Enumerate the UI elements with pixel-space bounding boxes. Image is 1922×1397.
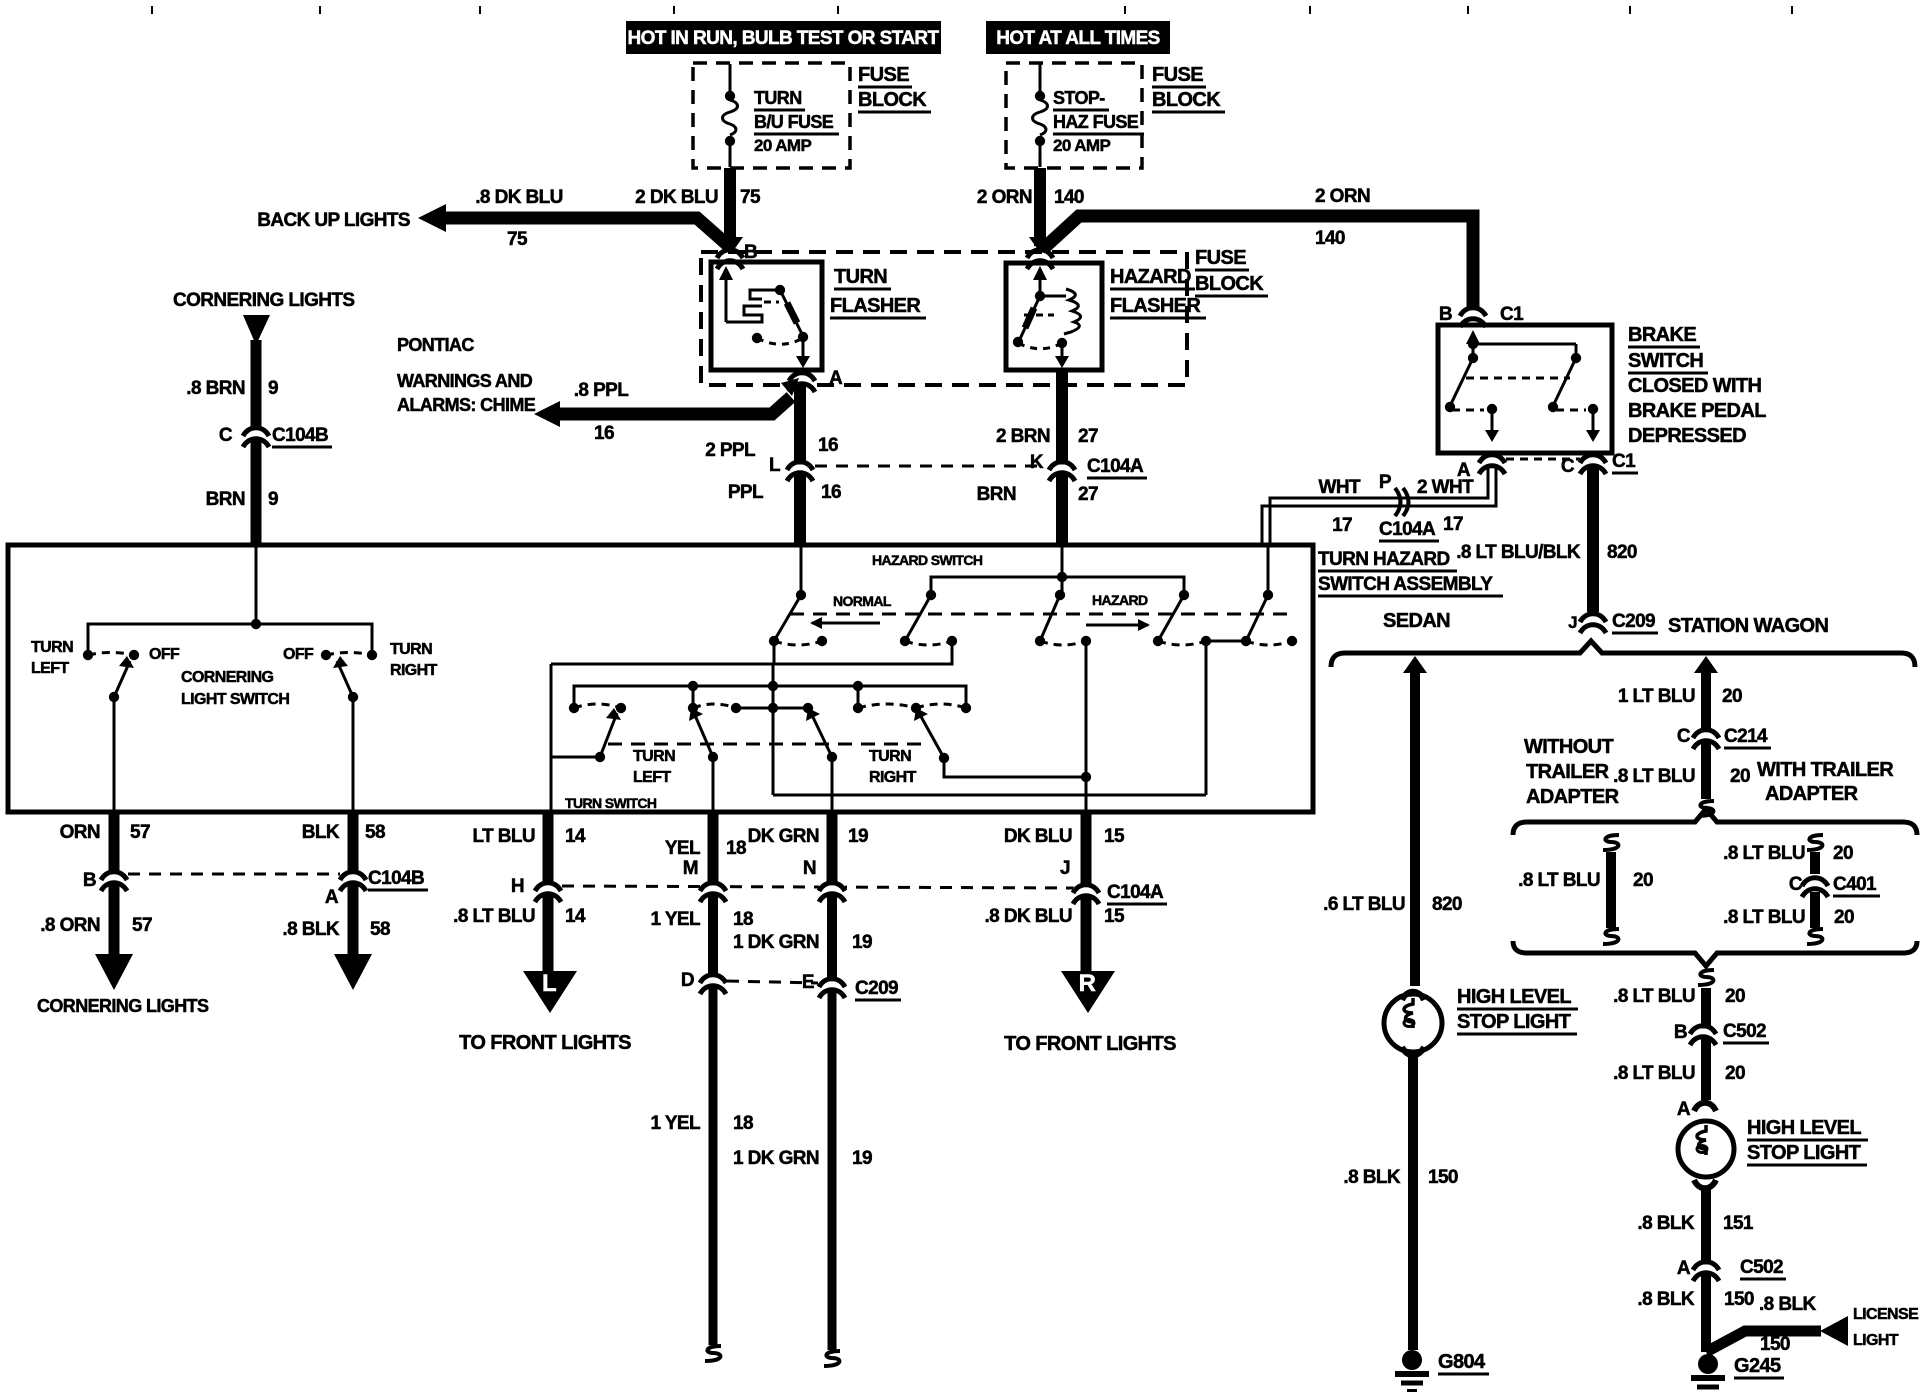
svg-text:N: N — [803, 858, 816, 879]
svg-text:20: 20 — [1725, 986, 1745, 1007]
svg-text:LEFT: LEFT — [633, 769, 671, 786]
svg-text:OFF: OFF — [283, 646, 314, 663]
svg-text:20: 20 — [1633, 870, 1653, 891]
svg-text:TRAILER: TRAILER — [1526, 761, 1610, 783]
svg-text:75: 75 — [740, 187, 761, 208]
svg-text:B: B — [1674, 1022, 1687, 1043]
svg-text:57: 57 — [132, 915, 152, 936]
svg-text:FUSE: FUSE — [858, 64, 909, 86]
svg-text:820: 820 — [1607, 542, 1637, 563]
svg-text:DK GRN: DK GRN — [748, 826, 819, 847]
svg-text:14: 14 — [565, 826, 586, 847]
svg-text:D: D — [681, 970, 694, 991]
svg-text:18: 18 — [733, 1113, 753, 1134]
svg-text:16: 16 — [594, 423, 614, 444]
svg-text:M: M — [683, 858, 698, 879]
svg-text:SEDAN: SEDAN — [1383, 610, 1450, 632]
svg-text:CLOSED WITH: CLOSED WITH — [1628, 375, 1762, 397]
svg-text:18: 18 — [726, 838, 746, 859]
svg-text:2 BRN: 2 BRN — [996, 426, 1050, 447]
svg-text:TURN: TURN — [31, 639, 73, 656]
svg-text:.8 BLK: .8 BLK — [1637, 1289, 1694, 1310]
svg-text:PPL: PPL — [728, 482, 764, 503]
svg-text:C502: C502 — [1740, 1257, 1783, 1278]
svg-text:WARNINGS AND: WARNINGS AND — [397, 371, 533, 391]
svg-text:NORMAL: NORMAL — [833, 593, 892, 609]
svg-text:.8 LT BLU: .8 LT BLU — [1723, 907, 1805, 928]
svg-text:1 DK GRN: 1 DK GRN — [733, 932, 819, 953]
svg-text:C214: C214 — [1724, 726, 1768, 747]
svg-text:.8 BLK: .8 BLK — [1637, 1213, 1694, 1234]
svg-text:B: B — [83, 870, 96, 891]
svg-text:140: 140 — [1315, 228, 1345, 249]
svg-text:C104A: C104A — [1107, 882, 1164, 903]
svg-text:FUSE: FUSE — [1195, 247, 1246, 269]
svg-text:20: 20 — [1722, 686, 1742, 707]
svg-text:TURN SWITCH: TURN SWITCH — [565, 795, 657, 811]
svg-text:9: 9 — [268, 378, 278, 399]
svg-text:.8 LT BLU: .8 LT BLU — [1613, 986, 1695, 1007]
svg-text:LICENSE: LICENSE — [1853, 1306, 1919, 1323]
svg-text:LIGHT: LIGHT — [1853, 1332, 1899, 1349]
svg-text:A: A — [1677, 1258, 1691, 1279]
svg-text:17: 17 — [1332, 515, 1352, 536]
svg-text:C401: C401 — [1833, 874, 1877, 895]
svg-text:C: C — [1789, 874, 1803, 895]
svg-text:1 YEL: 1 YEL — [651, 909, 701, 930]
svg-text:20: 20 — [1833, 843, 1853, 864]
svg-text:.8 PPL: .8 PPL — [574, 380, 629, 401]
svg-text:.8 ORN: .8 ORN — [40, 915, 100, 936]
svg-text:STOP-: STOP- — [1053, 88, 1105, 108]
svg-text:TURN: TURN — [834, 266, 887, 288]
svg-text:FLASHER: FLASHER — [1110, 295, 1201, 317]
svg-text:1 LT BLU: 1 LT BLU — [1618, 686, 1695, 707]
svg-text:CORNERING: CORNERING — [181, 669, 274, 686]
svg-text:27: 27 — [1078, 426, 1098, 447]
svg-text:2 PPL: 2 PPL — [705, 440, 756, 461]
svg-text:18: 18 — [733, 909, 753, 930]
svg-text:BRAKE: BRAKE — [1628, 324, 1696, 346]
svg-text:L: L — [542, 970, 556, 997]
svg-text:19: 19 — [852, 932, 872, 953]
svg-text:HAZARD: HAZARD — [1110, 266, 1191, 288]
svg-text:150: 150 — [1428, 1167, 1458, 1188]
svg-text:J: J — [1060, 858, 1070, 879]
svg-text:STATION WAGON: STATION WAGON — [1668, 615, 1828, 637]
svg-text:L: L — [769, 455, 781, 476]
svg-text:TURN: TURN — [390, 641, 432, 658]
svg-text:151: 151 — [1723, 1213, 1754, 1234]
svg-text:A: A — [1677, 1099, 1691, 1120]
svg-text:14: 14 — [565, 906, 586, 927]
svg-text:ADAPTER: ADAPTER — [1765, 783, 1859, 805]
svg-text:BLOCK: BLOCK — [858, 89, 927, 111]
svg-text:A: A — [325, 887, 339, 908]
svg-text:20: 20 — [1834, 907, 1854, 928]
svg-text:LEFT: LEFT — [31, 660, 69, 677]
svg-text:C104B: C104B — [368, 868, 424, 889]
svg-text:SWITCH ASSEMBLY: SWITCH ASSEMBLY — [1318, 574, 1493, 595]
svg-text:C1: C1 — [1612, 451, 1636, 472]
svg-text:FUSE: FUSE — [1152, 64, 1203, 86]
svg-text:C: C — [219, 425, 233, 446]
svg-text:TURN: TURN — [754, 88, 802, 108]
svg-text:.8 LT BLU: .8 LT BLU — [1613, 766, 1695, 787]
svg-text:HIGH LEVEL: HIGH LEVEL — [1457, 986, 1571, 1008]
svg-text:2 ORN: 2 ORN — [1315, 186, 1370, 207]
svg-text:58: 58 — [370, 919, 390, 940]
svg-text:TURN HAZARD: TURN HAZARD — [1318, 549, 1450, 570]
svg-text:C1: C1 — [1500, 304, 1524, 325]
svg-text:2 WHT: 2 WHT — [1417, 477, 1474, 498]
svg-text:BRAKE PEDAL: BRAKE PEDAL — [1628, 400, 1766, 422]
svg-text:.8 BRN: .8 BRN — [186, 378, 245, 399]
svg-text:27: 27 — [1078, 484, 1098, 505]
svg-text:.8 LT BLU: .8 LT BLU — [1723, 843, 1805, 864]
svg-text:TO FRONT LIGHTS: TO FRONT LIGHTS — [459, 1032, 631, 1054]
svg-text:16: 16 — [818, 435, 838, 456]
svg-text:DEPRESSED: DEPRESSED — [1628, 425, 1746, 447]
svg-text:A: A — [829, 368, 843, 389]
svg-text:BRN: BRN — [977, 484, 1016, 505]
svg-text:9: 9 — [268, 489, 278, 510]
svg-text:OFF: OFF — [149, 646, 180, 663]
svg-text:.6 LT BLU: .6 LT BLU — [1323, 894, 1405, 915]
svg-text:HAZARD: HAZARD — [1092, 592, 1148, 608]
svg-text:CORNERING LIGHTS: CORNERING LIGHTS — [37, 996, 209, 1016]
svg-text:HAZARD SWITCH: HAZARD SWITCH — [872, 552, 983, 568]
svg-text:C: C — [1677, 726, 1691, 747]
svg-text:ORN: ORN — [60, 822, 100, 843]
svg-text:150: 150 — [1760, 1334, 1790, 1355]
svg-text:19: 19 — [852, 1148, 872, 1169]
svg-text:15: 15 — [1104, 906, 1125, 927]
svg-text:HOT IN RUN, BULB TEST OR START: HOT IN RUN, BULB TEST OR START — [628, 28, 940, 49]
svg-text:J: J — [1568, 613, 1577, 632]
svg-text:WITHOUT: WITHOUT — [1524, 736, 1613, 758]
svg-text:19: 19 — [848, 826, 868, 847]
svg-text:C502: C502 — [1723, 1021, 1766, 1042]
svg-text:G804: G804 — [1438, 1351, 1486, 1373]
svg-text:820: 820 — [1432, 894, 1462, 915]
svg-text:B: B — [1439, 304, 1452, 325]
svg-text:DK BLU: DK BLU — [1004, 826, 1072, 847]
svg-text:HOT AT ALL TIMES: HOT AT ALL TIMES — [996, 28, 1160, 49]
svg-text:.8 LT BLU: .8 LT BLU — [453, 906, 535, 927]
svg-text:K: K — [1030, 452, 1044, 473]
svg-text:.8 LT BLU: .8 LT BLU — [1613, 1063, 1695, 1084]
svg-text:2 DK BLU: 2 DK BLU — [635, 187, 718, 208]
svg-text:P: P — [1379, 472, 1392, 493]
svg-text:.8 BLK: .8 BLK — [1343, 1167, 1400, 1188]
svg-text:WITH TRAILER: WITH TRAILER — [1757, 759, 1894, 781]
svg-text:BLK: BLK — [302, 822, 340, 843]
svg-text:.8 LT BLU/BLK: .8 LT BLU/BLK — [1456, 542, 1581, 563]
svg-text:57: 57 — [130, 822, 150, 843]
svg-text:PONTIAC: PONTIAC — [397, 335, 474, 355]
svg-text:2 ORN: 2 ORN — [977, 187, 1032, 208]
svg-text:C209: C209 — [1612, 611, 1655, 632]
svg-text:CORNERING LIGHTS: CORNERING LIGHTS — [173, 290, 354, 311]
svg-text:16: 16 — [821, 482, 841, 503]
svg-text:.8 BLK: .8 BLK — [1759, 1294, 1816, 1315]
svg-text:H: H — [511, 876, 524, 897]
svg-text:RIGHT: RIGHT — [869, 769, 917, 786]
svg-text:TURN: TURN — [869, 748, 911, 765]
svg-text:BACK UP LIGHTS: BACK UP LIGHTS — [257, 210, 410, 231]
svg-text:BLOCK: BLOCK — [1152, 89, 1221, 111]
svg-text:WHT: WHT — [1319, 477, 1361, 498]
svg-text:C: C — [1561, 456, 1575, 477]
svg-text:C209: C209 — [855, 978, 898, 999]
svg-text:1 YEL: 1 YEL — [651, 1113, 701, 1134]
svg-text:HAZ FUSE: HAZ FUSE — [1053, 112, 1139, 132]
svg-text:YEL: YEL — [665, 838, 701, 859]
svg-text:ADAPTER: ADAPTER — [1526, 786, 1620, 808]
svg-text:75: 75 — [507, 229, 528, 250]
svg-text:FLASHER: FLASHER — [830, 295, 921, 317]
svg-text:STOP LIGHT: STOP LIGHT — [1747, 1142, 1861, 1164]
svg-text:.8 BLK: .8 BLK — [282, 919, 339, 940]
svg-text:TO FRONT LIGHTS: TO FRONT LIGHTS — [1004, 1033, 1176, 1055]
svg-text:15: 15 — [1104, 826, 1125, 847]
svg-text:20 AMP: 20 AMP — [754, 136, 811, 155]
svg-text:LT BLU: LT BLU — [472, 826, 535, 847]
svg-text:B/U FUSE: B/U FUSE — [754, 112, 834, 132]
svg-text:BLOCK: BLOCK — [1195, 273, 1264, 295]
svg-text:G245: G245 — [1734, 1355, 1781, 1377]
svg-text:20: 20 — [1730, 766, 1750, 787]
svg-text:58: 58 — [365, 822, 385, 843]
svg-text:140: 140 — [1054, 187, 1084, 208]
svg-text:SWITCH: SWITCH — [1628, 350, 1703, 372]
svg-text:20: 20 — [1725, 1063, 1745, 1084]
svg-text:17: 17 — [1443, 514, 1463, 535]
svg-text:STOP LIGHT: STOP LIGHT — [1457, 1011, 1571, 1033]
svg-text:150: 150 — [1724, 1289, 1754, 1310]
svg-text:C104A: C104A — [1379, 519, 1436, 540]
svg-text:1 DK GRN: 1 DK GRN — [733, 1148, 819, 1169]
svg-text:.8 LT BLU: .8 LT BLU — [1518, 870, 1600, 891]
svg-text:R: R — [1079, 970, 1096, 997]
svg-text:20 AMP: 20 AMP — [1053, 136, 1110, 155]
svg-text:C104A: C104A — [1087, 456, 1144, 477]
svg-text:BRN: BRN — [206, 489, 245, 510]
svg-text:ALARMS: CHIME: ALARMS: CHIME — [397, 395, 536, 415]
svg-text:LIGHT SWITCH: LIGHT SWITCH — [181, 691, 289, 708]
svg-text:RIGHT: RIGHT — [390, 662, 438, 679]
svg-text:HIGH LEVEL: HIGH LEVEL — [1747, 1117, 1861, 1139]
svg-text:.8 DK BLU: .8 DK BLU — [985, 906, 1073, 927]
svg-text:TURN: TURN — [633, 748, 675, 765]
svg-text:C104B: C104B — [272, 425, 328, 446]
svg-text:.8 DK BLU: .8 DK BLU — [475, 187, 563, 208]
